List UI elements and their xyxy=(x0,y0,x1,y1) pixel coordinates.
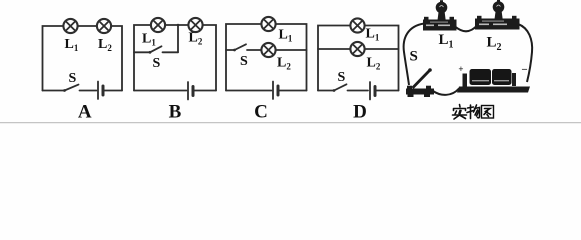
svg-text:S: S xyxy=(153,56,161,71)
svg-text:B: B xyxy=(169,102,182,123)
svg-text:D: D xyxy=(353,102,367,123)
svg-text:S: S xyxy=(69,71,77,86)
svg-text:–: – xyxy=(521,64,528,75)
svg-text:C: C xyxy=(254,102,268,123)
svg-text:A: A xyxy=(78,102,92,123)
svg-text:+: + xyxy=(458,64,463,74)
svg-text:S: S xyxy=(240,54,248,69)
svg-text:S: S xyxy=(338,70,346,85)
svg-text:S: S xyxy=(410,49,418,65)
